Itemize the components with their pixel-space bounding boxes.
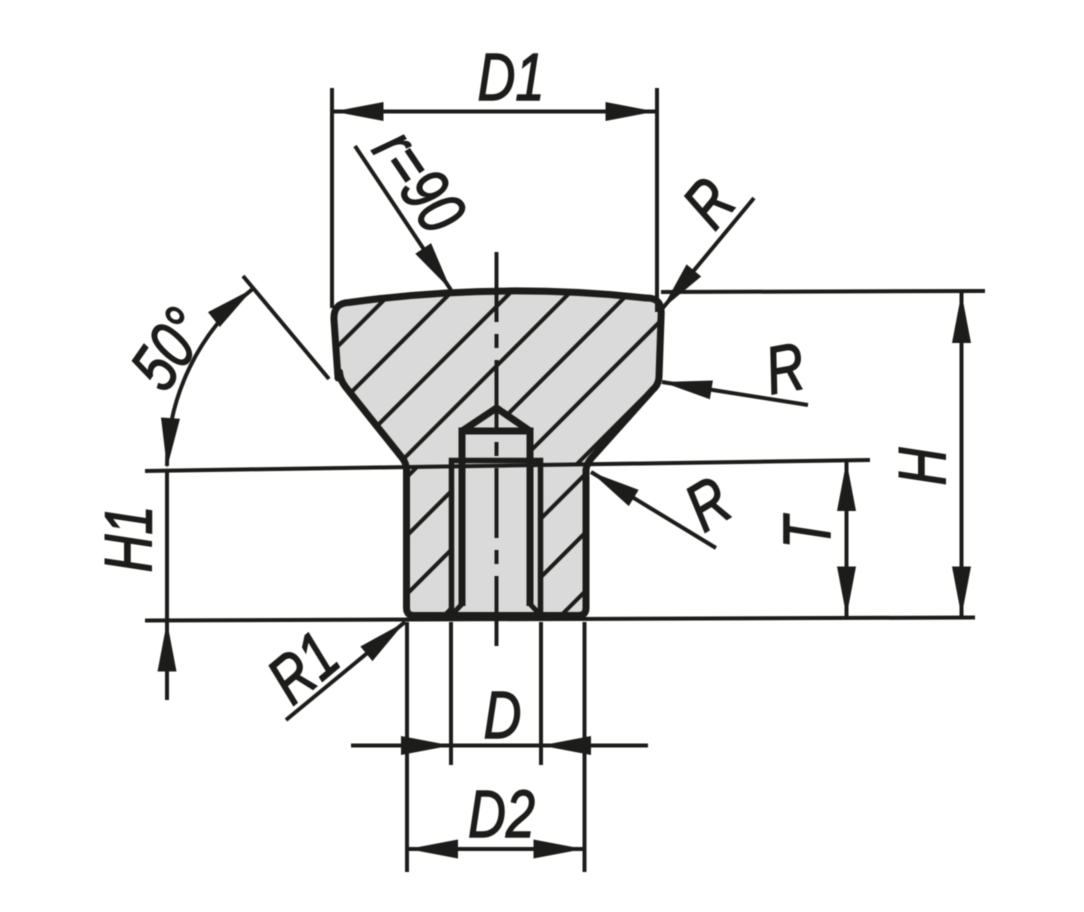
svg-text:H1: H1 xyxy=(91,506,166,573)
R top leader xyxy=(662,198,754,309)
arrowheads xyxy=(158,102,972,859)
D ext right xyxy=(539,622,543,765)
thin dimension linework xyxy=(167,88,962,872)
arc top arrow xyxy=(208,281,259,327)
D right arrow xyxy=(541,736,591,755)
svg-text:R: R xyxy=(673,462,744,545)
svg-text:H: H xyxy=(885,447,960,485)
H1 dim line xyxy=(165,471,169,700)
svg-text:R1: R1 xyxy=(253,618,352,718)
H top arrow xyxy=(952,293,971,343)
H bottom arrow xyxy=(952,567,971,617)
H1 bottom arrow xyxy=(158,622,177,672)
svg-text:D2: D2 xyxy=(468,777,535,852)
svg-text:D: D xyxy=(484,678,522,753)
r=90 leader xyxy=(355,146,451,290)
R mid arrow xyxy=(661,373,713,400)
svg-text:D1: D1 xyxy=(478,40,545,115)
H top extension line xyxy=(661,291,985,292)
D2 left arrow xyxy=(408,840,458,859)
D1 dim line xyxy=(332,110,657,114)
D2 dim line xyxy=(407,847,585,851)
D1 ext right xyxy=(655,88,659,312)
R low arrow xyxy=(586,464,639,506)
R top arrow xyxy=(655,264,702,315)
svg-text:R: R xyxy=(668,165,749,242)
R1 arrow xyxy=(360,615,411,661)
tapped hole: thread major outline xyxy=(452,461,541,617)
D1 ext left xyxy=(330,88,334,308)
D2 ext left xyxy=(405,622,409,872)
D ext left xyxy=(449,622,453,765)
knob body section outline xyxy=(334,291,661,616)
R mid leader xyxy=(662,382,808,405)
drill point xyxy=(462,408,530,431)
D left arrow xyxy=(401,736,451,755)
svg-text:r=90: r=90 xyxy=(359,116,480,246)
drill hole outline xyxy=(462,431,530,606)
r=90 arrow xyxy=(415,243,459,295)
section hatching 45deg (cap) xyxy=(0,250,1029,650)
D2 ext right xyxy=(583,622,587,872)
50deg flank line xyxy=(243,276,329,379)
R low leader xyxy=(591,472,716,548)
T top arrow xyxy=(837,461,856,511)
50deg arc xyxy=(167,289,253,466)
bottom extension line (long) xyxy=(145,618,975,621)
svg-text:T: T xyxy=(770,513,845,549)
hub-top extension line (long, slightly tilted) xyxy=(145,460,870,471)
R1 leader xyxy=(286,622,405,720)
T bottom arrow xyxy=(837,567,856,617)
D1 right xyxy=(606,102,656,121)
H dim line xyxy=(960,292,964,618)
D2 right arrow xyxy=(534,840,584,859)
arc bottom arrow xyxy=(158,417,180,468)
hole entry chamfers xyxy=(452,604,540,615)
centerline xyxy=(495,252,499,658)
D1 left xyxy=(334,102,384,121)
D dim line xyxy=(351,744,648,748)
T dim line xyxy=(845,460,849,618)
svg-text:50°: 50° xyxy=(116,295,223,403)
